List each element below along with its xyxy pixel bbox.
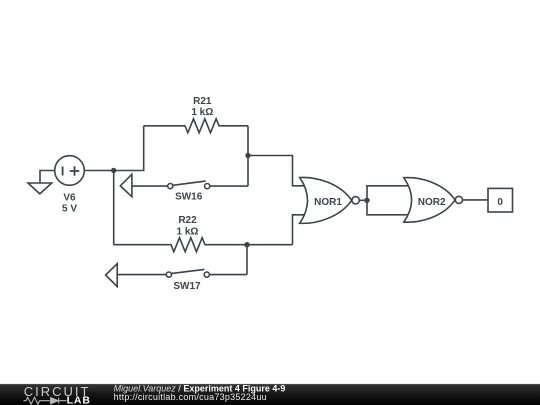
wire NOR1 output to node D (359, 199, 367, 201)
svg-text:NOR2: NOR2 (418, 197, 446, 208)
nor gate NOR1 (300, 177, 360, 223)
CircuitLab logo (24, 384, 91, 405)
switch SW16 (120, 174, 248, 197)
svg-text:5 V: 5 V (62, 204, 77, 215)
svg-text:SW16: SW16 (175, 192, 203, 203)
svg-text:NOR1: NOR1 (314, 197, 342, 208)
footer bar (0, 384, 540, 405)
wire R21 right down to SW16 (247, 126, 249, 186)
svg-text:1 kΩ: 1 kΩ (177, 227, 199, 238)
node D (364, 198, 369, 203)
svg-text:http://circuitlab.com/cua73p35: http://circuitlab.com/cua73p35224uu (114, 392, 267, 402)
svg-text:V6: V6 (63, 192, 76, 203)
wire V6 to ground (40, 171, 55, 184)
resistor R22 (114, 238, 293, 252)
node C (244, 242, 249, 247)
output indicator box (488, 188, 513, 212)
wire node B to NOR1 top input (248, 156, 305, 186)
voltage source V6 (55, 156, 85, 186)
nor gate NOR2 (404, 178, 463, 223)
resistor R21 (144, 119, 248, 133)
switch SW17 (106, 264, 247, 287)
svg-text:0: 0 (497, 197, 503, 208)
svg-text:R21: R21 (193, 96, 212, 107)
svg-text:LAB: LAB (67, 394, 91, 405)
wire R22 right up to NOR1 bottom input (293, 215, 306, 245)
svg-text:1 kΩ: 1 kΩ (191, 107, 213, 118)
wire node D to NOR2 inputs (367, 186, 411, 215)
ground (28, 183, 52, 194)
svg-text:SW17: SW17 (173, 281, 201, 292)
wire node A down to R22 (113, 171, 115, 245)
wire node C down to SW17 (246, 245, 248, 275)
wire NOR2 output to indicator (463, 199, 489, 201)
wire V6 right to node A and up to R21 (84, 126, 143, 171)
svg-text:R22: R22 (178, 215, 197, 226)
node A (111, 168, 116, 173)
node B (245, 153, 250, 158)
